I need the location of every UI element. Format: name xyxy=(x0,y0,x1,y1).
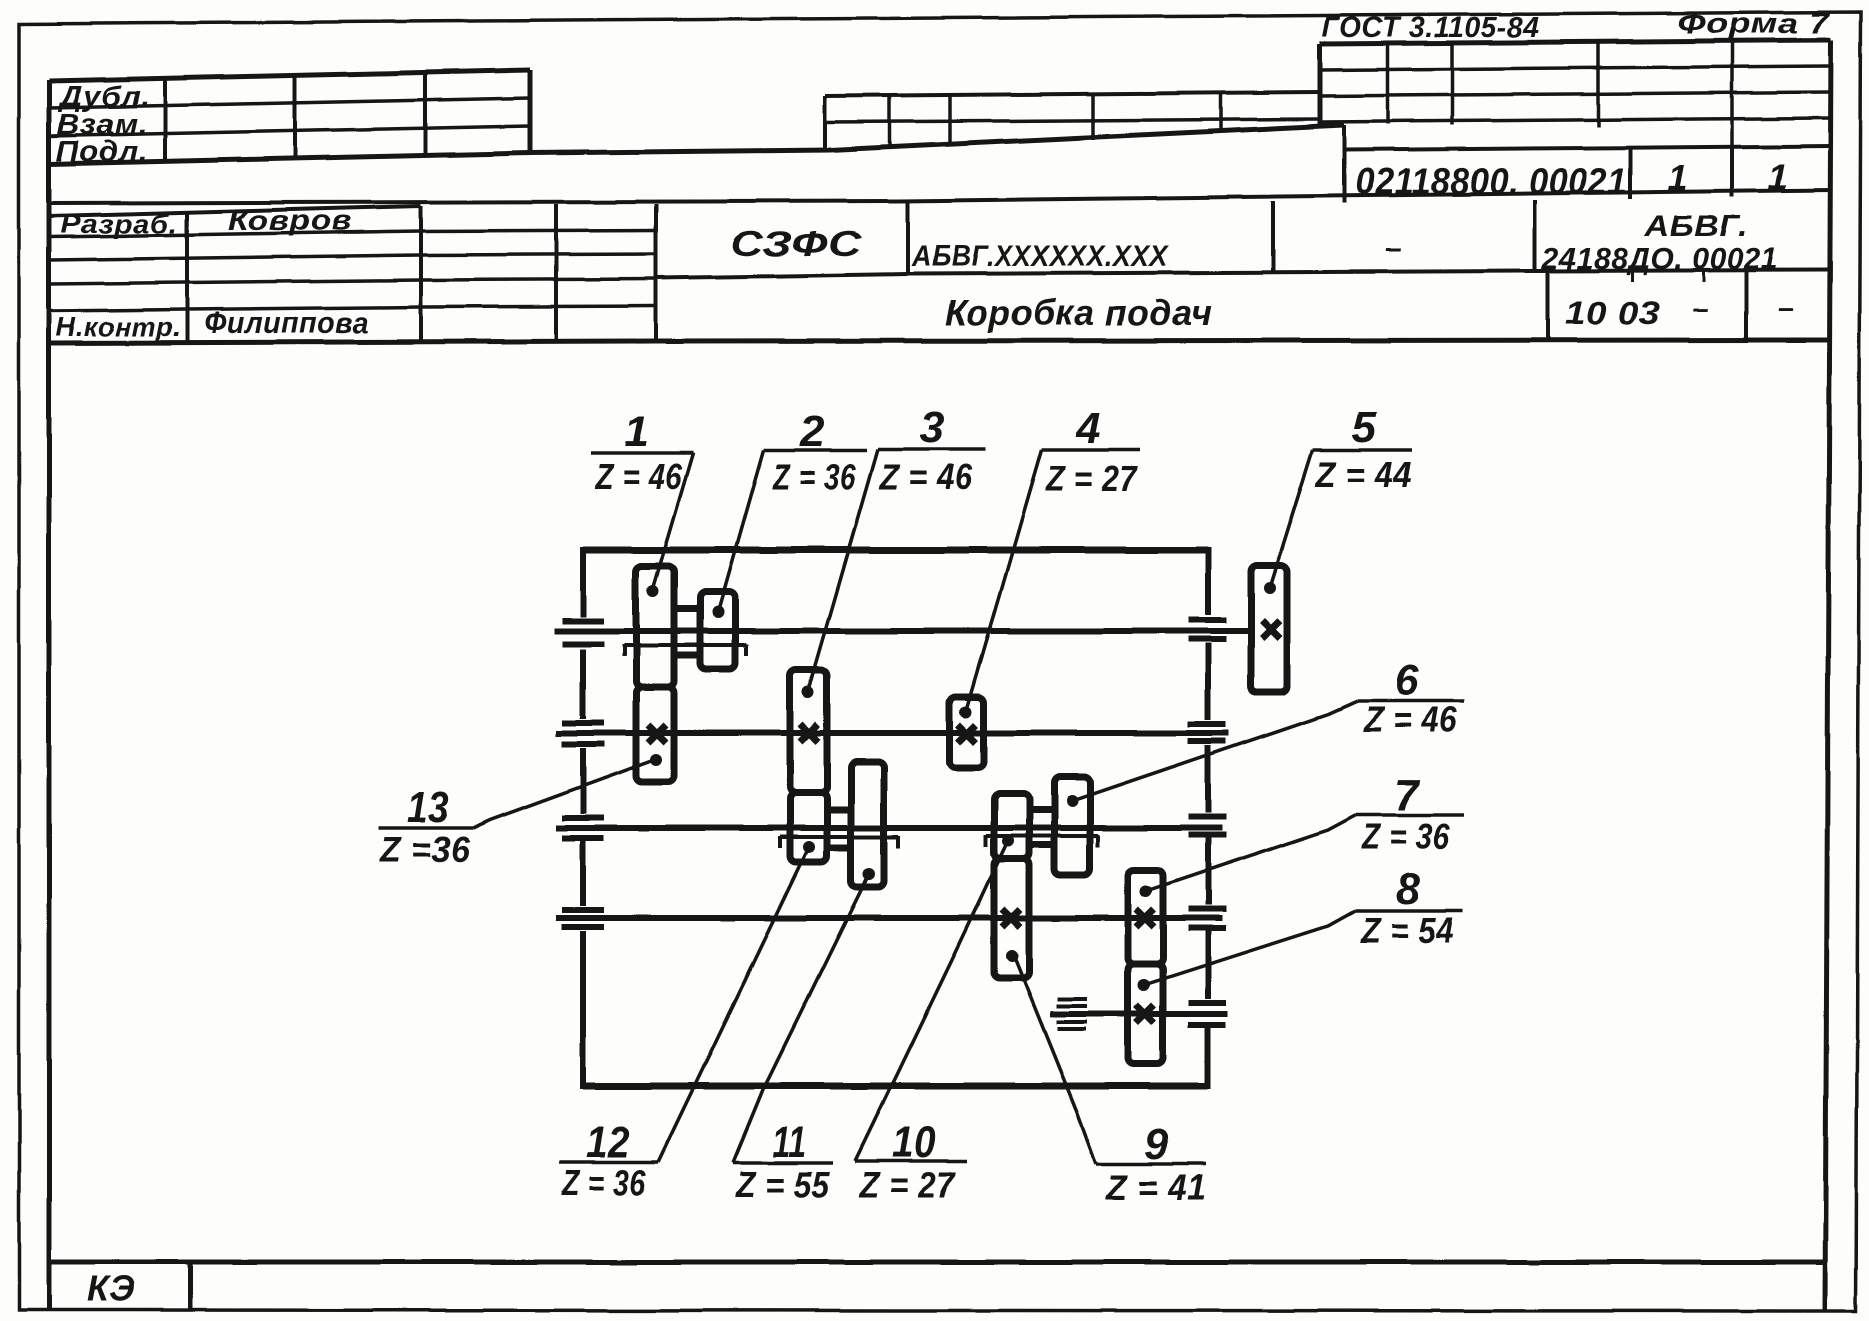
leader dot gear 3 xyxy=(802,686,814,698)
x-mark gear 9 xyxy=(1002,909,1020,927)
DIAGRAM GROUP xyxy=(554,547,1287,1089)
leader dot gear 9 xyxy=(1006,950,1018,962)
label 1 xyxy=(591,407,693,497)
gear 12 (Z=36) xyxy=(790,793,827,862)
gear 1 (Z=46) xyxy=(636,566,674,687)
shaft II xyxy=(556,730,1229,736)
bearing left wall shaft II xyxy=(562,723,604,744)
svg-text:4: 4 xyxy=(1075,404,1101,453)
bearing right wall shaft II xyxy=(1188,724,1226,741)
leader dot gear 2 xyxy=(712,606,724,618)
label 12 leader xyxy=(658,847,809,1162)
x-mark gear 7 xyxy=(1136,909,1154,927)
gear 9 (Z=41) xyxy=(994,859,1029,978)
gear 7 (Z=36) xyxy=(1128,870,1163,964)
svg-text:10 03: 10 03 xyxy=(1565,295,1660,331)
long line under DUBL table continuing to number band xyxy=(49,125,1344,164)
bottom strip top line xyxy=(49,1260,1825,1265)
svg-text:13: 13 xyxy=(407,783,449,832)
sleeve line on shaft III right xyxy=(986,835,1098,847)
svg-text:12: 12 xyxy=(586,1118,630,1167)
bearing right wall shaft IV xyxy=(1188,909,1226,928)
label 10 xyxy=(855,1118,967,1205)
label 5 xyxy=(1313,403,1412,495)
svg-text:АБВГ.ХХХХХХ.ХХХ: АБВГ.ХХХХХХ.ХХХ xyxy=(911,240,1169,273)
bearing left wall shaft I xyxy=(562,621,604,644)
leader dot gear 1 xyxy=(647,585,659,597)
svg-text:Z = 27: Z = 27 xyxy=(1045,458,1138,499)
svg-text:9: 9 xyxy=(1144,1120,1169,1169)
leader dot gear 4 xyxy=(960,706,972,718)
leader dot gear 8 xyxy=(1138,979,1150,991)
title block bottom line xyxy=(49,340,1830,343)
shaft I xyxy=(554,628,1251,634)
svg-text:2: 2 xyxy=(799,407,825,456)
x-mark gear 8 xyxy=(1136,1005,1154,1023)
label 4 xyxy=(1042,404,1140,499)
label 9 xyxy=(1096,1120,1206,1208)
gear 11 (Z=55) xyxy=(851,762,884,887)
gear 10 (Z=27) xyxy=(994,794,1029,859)
label 3 xyxy=(878,403,986,497)
bearing right wall shaft III xyxy=(1188,817,1226,835)
gear 6 (Z=46) xyxy=(1054,777,1090,875)
LABELS GROUP xyxy=(379,403,1464,1208)
svg-text:Z = 46: Z = 46 xyxy=(879,456,973,497)
svg-text:–: – xyxy=(1692,293,1709,325)
label 8 xyxy=(1355,865,1463,951)
row line under first title row xyxy=(656,270,1831,278)
svg-text:11: 11 xyxy=(772,1118,806,1167)
svg-text:–: – xyxy=(1777,293,1794,325)
x-mark gear 3 xyxy=(800,724,818,742)
sleeve line on shaft III middle xyxy=(780,836,898,848)
clutch lines gear10-gear6 xyxy=(1029,810,1054,845)
bearing left wall shaft IV xyxy=(562,910,604,927)
svg-text:КЭ: КЭ xyxy=(87,1268,135,1309)
svg-text:–: – xyxy=(1385,232,1402,265)
label 6 xyxy=(1357,656,1464,740)
label 12 xyxy=(559,1118,658,1203)
svg-text:Филиппова: Филиппова xyxy=(204,305,369,340)
svg-text:Z = 36: Z = 36 xyxy=(772,456,856,497)
SZFS cell right edge xyxy=(906,202,910,274)
gearbox housing walls xyxy=(583,547,1208,1089)
label 11 xyxy=(733,1118,833,1205)
svg-text:Н.контр.: Н.контр. xyxy=(56,312,181,342)
svg-text:Z =36: Z =36 xyxy=(379,829,470,870)
title block row lines xyxy=(49,230,656,237)
label 2 leader xyxy=(718,450,764,612)
label 1 leader xyxy=(652,453,693,592)
label 5 leader xyxy=(1270,450,1313,588)
gear 3 (Z=46) xyxy=(790,670,827,793)
svg-text:Форма 7: Форма 7 xyxy=(1677,8,1832,40)
bearing right wall shaft I xyxy=(1188,620,1226,639)
svg-text:Разраб.: Разраб. xyxy=(60,209,178,239)
x-mark gear 4 xyxy=(958,725,976,743)
gear 2 (Z=36) xyxy=(700,592,735,669)
label 9 leader xyxy=(1014,956,1096,1164)
svg-text:6: 6 xyxy=(1394,656,1419,705)
svg-text:Z = 46: Z = 46 xyxy=(594,456,682,497)
bearing left wall shaft III xyxy=(562,818,604,838)
label 7 xyxy=(1356,771,1464,857)
TABLES GROUP xyxy=(49,8,1832,343)
subdivision ticks in 10-03 cell xyxy=(1631,272,1634,282)
sleeve line on shaft I xyxy=(624,644,746,656)
leader dot gear 11 xyxy=(863,868,875,880)
document number band cells xyxy=(1344,125,1789,203)
gear 4 (Z=27) xyxy=(950,697,984,768)
label 2 xyxy=(764,407,867,497)
title block: RAZRAB row top line xyxy=(49,206,421,216)
svg-text:Z = 55: Z = 55 xyxy=(735,1164,830,1205)
housing left wall segments xyxy=(580,547,586,617)
housing bottom edge xyxy=(583,1083,1208,1090)
bearing right wall shaft V xyxy=(1188,1003,1226,1025)
housing top edge xyxy=(583,547,1208,554)
title block top line (full width) xyxy=(49,190,1831,203)
svg-text:7: 7 xyxy=(1394,771,1421,820)
middle top small table xyxy=(825,92,1320,150)
leader dot gear 6 xyxy=(1066,795,1078,807)
gear 13 (Z=36) xyxy=(636,687,674,782)
svg-text:Z = 46: Z = 46 xyxy=(1363,699,1457,740)
leader dot gear 10 xyxy=(1002,835,1014,847)
label 4 leader xyxy=(966,450,1042,712)
shaft III xyxy=(556,825,1222,831)
gear 5 (Z=44) xyxy=(1251,566,1287,692)
leader dot gear 5 xyxy=(1264,582,1276,594)
mid bearing shaft V left end xyxy=(1056,999,1087,1029)
inner frame right vertical xyxy=(1825,40,1831,1310)
inner frame left vertical xyxy=(47,80,52,1310)
label 11 leader xyxy=(733,874,869,1163)
clutch lines gear12-gear11 xyxy=(827,810,851,848)
shaft V xyxy=(1050,1011,1228,1017)
label 10 leader xyxy=(855,841,1008,1161)
svg-text:Z = 27: Z = 27 xyxy=(859,1164,956,1205)
svg-text:Z = 54: Z = 54 xyxy=(1360,910,1454,951)
svg-text:24188ДО. 00021: 24188ДО. 00021 xyxy=(1541,241,1778,276)
label 7 leader xyxy=(1146,815,1356,891)
top-right header table frame xyxy=(1320,40,1831,150)
top-left DUBL table xyxy=(49,70,530,168)
leader dot gear 13 xyxy=(650,754,662,766)
svg-text:Ковров: Ковров xyxy=(228,205,352,237)
svg-text:5: 5 xyxy=(1352,403,1377,452)
leader dot gear 7 xyxy=(1140,885,1152,897)
svg-text:8: 8 xyxy=(1396,865,1421,914)
label 8 leader xyxy=(1144,911,1355,985)
x-mark gear 13 xyxy=(648,725,666,743)
KE cell divider xyxy=(188,1262,193,1310)
title block column verticals xyxy=(185,212,189,342)
x-mark gear 5 xyxy=(1262,621,1280,639)
svg-text:Z = 41: Z = 41 xyxy=(1105,1167,1206,1208)
label 3 leader xyxy=(808,449,878,692)
label 13 xyxy=(379,783,473,870)
svg-text:АБВГ.: АБВГ. xyxy=(1644,210,1748,243)
label 13 leader xyxy=(473,760,654,828)
svg-text:Z = 44: Z = 44 xyxy=(1315,454,1412,495)
svg-text:10: 10 xyxy=(892,1118,936,1167)
shaft IV xyxy=(556,915,1222,921)
svg-text:ГОСТ 3.1105-84: ГОСТ 3.1105-84 xyxy=(1322,12,1540,44)
svg-text:1: 1 xyxy=(624,407,649,456)
clutch lines gear1-gear2 xyxy=(674,609,700,655)
svg-text:Коробка подач: Коробка подач xyxy=(945,292,1212,333)
svg-text:СЗФС: СЗФС xyxy=(730,225,862,264)
svg-text:Z = 36: Z = 36 xyxy=(561,1162,646,1203)
label 6 leader xyxy=(1072,701,1357,801)
svg-text:3: 3 xyxy=(920,403,945,452)
leader dot gear 12 xyxy=(803,841,815,853)
housing right wall segments xyxy=(1205,547,1211,615)
gear 8 (Z=54) xyxy=(1128,964,1163,1064)
svg-text:Z = 36: Z = 36 xyxy=(1361,816,1450,857)
